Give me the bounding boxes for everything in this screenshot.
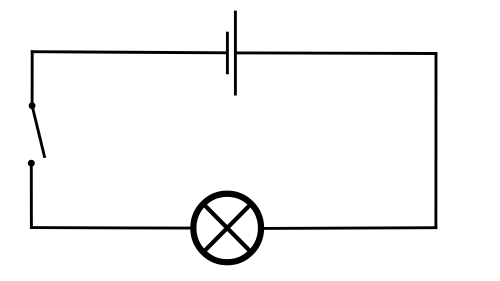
battery cell: long positive plate	[234, 11, 237, 96]
wire: bottom-left segment (bottom-left corner to lamp)	[30, 226, 192, 229]
wire: right side (top-right corner to bottom-right corner)	[434, 52, 437, 229]
switch S1: top terminal junction dot	[29, 102, 36, 109]
wire: top-right segment (battery positive plate to top-right corner)	[235, 51, 437, 54]
switch S1: bottom terminal junction dot	[28, 160, 35, 167]
lamp L1: cross stroke (top-left to bottom-right)	[202, 203, 252, 254]
wire: left upper segment (top-left corner to switch top terminal)	[31, 50, 34, 105]
wire: left lower segment (switch bottom terminal to bottom-left corner)	[30, 163, 33, 229]
wire: bottom-right segment (lamp to bottom-right corner)	[264, 226, 438, 230]
lamp L1: cross stroke (top-right to bottom-left)	[202, 203, 252, 254]
switch S1: open blade arm	[32, 106, 45, 158]
wire: top-left segment (switch top to battery negative plate)	[31, 52, 227, 53]
lamp L1: circle envelope	[193, 194, 261, 263]
battery cell: short negative plate	[226, 32, 229, 75]
